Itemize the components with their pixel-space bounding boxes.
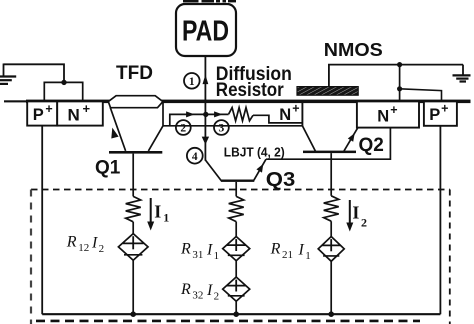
svg-text:+: + — [83, 101, 91, 116]
lower lateral wire (nodes 2-3) — [163, 125, 302, 127]
svg-text:21: 21 — [282, 249, 293, 261]
Q3 base lead — [235, 182, 237, 197]
TFD field-oxide hexagon — [108, 96, 163, 108]
node 3 circled — [214, 120, 229, 135]
svg-text:Resistor: Resistor — [216, 80, 285, 101]
svg-text:N: N — [279, 106, 291, 124]
svg-text:I: I — [91, 234, 98, 251]
svg-text:1: 1 — [214, 250, 220, 262]
dependent source R32 I2 — [223, 277, 250, 301]
transistor Q1 emitter slant — [110, 107, 125, 150]
junction dot pad/resistor — [203, 112, 208, 117]
wire ground to P+/N+ contact — [4, 64, 65, 82]
gate wire — [329, 65, 463, 87]
svg-text:R: R — [180, 281, 191, 298]
node 1 circled — [184, 73, 200, 89]
svg-text:+: + — [45, 102, 52, 116]
N+ box (left) — [57, 101, 103, 125]
scan artifact bar top — [183, 0, 199, 2]
svg-text:Q1: Q1 — [95, 158, 121, 179]
wire resistor to N+ — [253, 115, 302, 123]
wire to P+ (right) — [400, 89, 442, 101]
Q2 base bar — [303, 151, 356, 154]
N+ box (NMOS drain) — [357, 101, 419, 127]
svg-text:I: I — [352, 203, 359, 223]
dependent source R21 I1 — [318, 237, 344, 262]
svg-text:I: I — [206, 282, 213, 299]
junction dot on bus (left) — [130, 311, 136, 317]
svg-text:31: 31 — [192, 249, 203, 261]
svg-text:+: + — [441, 101, 448, 115]
Q3 base bar — [221, 180, 255, 182]
junction dot on bus (middle) — [233, 311, 239, 317]
dependent source R12 I2 — [118, 234, 148, 261]
svg-text:2: 2 — [361, 215, 367, 229]
svg-text:PAD: PAD — [182, 16, 229, 48]
right P+ tap — [439, 126, 441, 314]
svg-text:4: 4 — [192, 151, 198, 163]
junction dot (drain / P+ branch) — [397, 86, 402, 91]
Q1 emitter arrow — [111, 128, 118, 139]
Q1 collector slant — [148, 126, 163, 151]
N+ box (resistor terminal) right edge — [301, 103, 303, 126]
svg-text:Q2: Q2 — [359, 135, 384, 156]
Q3 emitter slant — [254, 159, 266, 180]
current I2 arrow — [349, 200, 351, 225]
node 4 circled — [187, 148, 203, 164]
svg-text:1: 1 — [189, 76, 195, 88]
svg-text:I: I — [298, 241, 305, 258]
ground bus — [42, 313, 440, 315]
node 2 circled — [176, 120, 191, 135]
wire — [132, 222, 134, 234]
svg-text:N: N — [68, 106, 80, 125]
Q3 emitter arrow — [256, 164, 263, 173]
left P+ tap — [41, 126, 43, 315]
substrate resistor (left branch) — [126, 196, 141, 221]
Q3 emitter wire to N+ — [266, 128, 390, 160]
svg-text:R: R — [66, 234, 77, 251]
NMOS gate (hatched) — [297, 87, 358, 96]
transistor Q3 collector slant — [205, 160, 221, 181]
current arrows on upper wire — [186, 111, 195, 117]
dashed substrate boundary — [31, 189, 450, 191]
PAD box — [176, 4, 236, 56]
dependent source R31 I1 — [223, 237, 250, 261]
transistor Q2 collector slant — [302, 126, 315, 152]
P+ box (right) — [424, 101, 457, 125]
substrate surface line — [4, 100, 28, 102]
svg-text:R: R — [270, 241, 281, 258]
wire PAD vertical — [204, 56, 206, 161]
arrow down node4 — [202, 137, 209, 145]
svg-text:+: + — [390, 103, 397, 117]
Q1 collector contact vertical — [162, 103, 164, 126]
svg-text:Q3: Q3 — [266, 169, 296, 191]
Q2 emitter arrow — [348, 133, 355, 142]
substrate resistor (right branch) — [324, 196, 339, 221]
ground (top-left) — [3, 64, 5, 77]
junction dot on bus (right) — [328, 311, 334, 317]
svg-text:1: 1 — [163, 211, 169, 225]
svg-text:2: 2 — [180, 123, 186, 135]
junction dot (gate wire / drain) — [397, 62, 402, 67]
svg-text:3: 3 — [219, 123, 225, 135]
arrow up node1 — [203, 75, 209, 85]
contact bracket over P+ and N+ — [44, 82, 82, 100]
svg-text:LBJT (4, 2): LBJT (4, 2) — [224, 144, 285, 159]
P+ box (left) — [27, 101, 57, 125]
svg-text:P: P — [429, 106, 440, 124]
Q1 base lead — [132, 154, 134, 197]
drain wire — [399, 65, 401, 101]
svg-text:1: 1 — [305, 250, 311, 262]
Q2 emitter slant — [344, 128, 358, 151]
svg-text:P: P — [33, 106, 44, 124]
svg-text:+: + — [292, 101, 299, 115]
ground (top-right) — [462, 65, 464, 76]
svg-text:I: I — [154, 202, 161, 222]
substrate resistor (middle branch) — [229, 196, 244, 221]
svg-text:2: 2 — [214, 290, 220, 302]
svg-text:I: I — [206, 241, 213, 258]
svg-text:12: 12 — [78, 242, 89, 254]
wire to bus — [132, 260, 134, 314]
diffusion resistor zigzag — [229, 108, 253, 121]
svg-text:NMOS: NMOS — [324, 39, 383, 60]
Q1 base bar — [109, 151, 162, 154]
svg-text:TFD: TFD — [116, 63, 153, 84]
svg-text:R: R — [180, 241, 191, 258]
upper lateral wire to resistor — [170, 114, 229, 125]
svg-text:2: 2 — [99, 243, 105, 255]
svg-text:N: N — [377, 108, 389, 126]
junction dot — [61, 80, 66, 85]
Q2 base lead — [330, 153, 332, 196]
current I1 arrow — [150, 198, 152, 224]
svg-text:32: 32 — [192, 290, 203, 302]
